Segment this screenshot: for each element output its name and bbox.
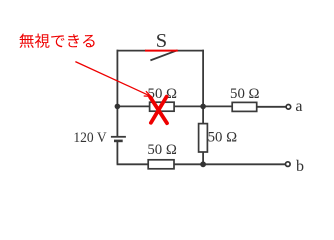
wire top rail left segment [117, 50, 146, 52]
junction node right-bottom [200, 161, 206, 167]
wire bottom rail left [117, 163, 149, 165]
wire left rail lower (battery - plate to bottom rail) [116, 141, 118, 164]
terminal b circle [286, 162, 291, 167]
switch S blade (open position) [150, 50, 177, 60]
wire bottom rail to terminal b [174, 163, 285, 165]
battery long plate (+) [111, 136, 126, 138]
wire top rail right segment [177, 50, 204, 52]
resistor R-mid box (the shorted/negligible one) [150, 102, 175, 111]
red X cross stroke 1 [150, 97, 167, 123]
svg-text:b: b [296, 158, 304, 175]
red X cross stroke 2 [151, 97, 167, 123]
red closed-switch mark across gap [145, 50, 178, 52]
red arrow line from note to shorted resistor [75, 62, 150, 97]
wire right rail upper [202, 50, 204, 124]
svg-text:50 Ω: 50 Ω [230, 86, 260, 102]
wire right rail lower [202, 152, 204, 165]
red arrowhead [144, 91, 151, 96]
wire left rail upper (to battery + plate) [116, 50, 118, 136]
svg-text:50 Ω: 50 Ω [147, 142, 177, 158]
wire middle rail left [117, 105, 149, 107]
resistor R-bottom box [148, 160, 174, 169]
wire to terminal a [257, 106, 286, 108]
terminal a circle [286, 105, 291, 110]
svg-text:S: S [156, 30, 167, 52]
red annotation text: mushi dekiru (can be neglected) [20, 34, 95, 48]
svg-text:50 Ω: 50 Ω [208, 129, 238, 145]
resistor R-vertical box [199, 124, 208, 152]
wire middle rail right [174, 105, 232, 107]
resistor R-right box [232, 102, 257, 111]
svg-text:a: a [295, 98, 302, 115]
junction node left-middle [115, 104, 121, 110]
svg-text:120 V: 120 V [73, 130, 106, 146]
battery short plate (-) [114, 140, 123, 143]
junction node right-middle [200, 104, 206, 110]
